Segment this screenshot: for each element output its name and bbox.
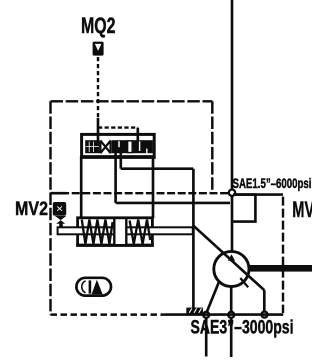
pilot line solid left stub [51, 192, 67, 195]
wire valve port A vertical [114, 152, 117, 203]
valve U2 spring left smear [85, 140, 99, 153]
wire MQ2 stem solid into valve [97, 118, 100, 135]
spool push rod (thin rectangle) [58, 227, 193, 234]
pilot line MV2 dashed (y=193) [51, 192, 230, 194]
svg-text:MV2: MV2 [15, 198, 48, 220]
pilot branch elbow down into valve [136, 128, 139, 135]
valve U2 position square crossed arrows [100, 140, 110, 153]
node SAE1.5 port circle [229, 190, 235, 196]
solenoid MV2 stem [59, 223, 63, 227]
label oval inner arc [82, 281, 86, 293]
wire valve A-port line horizontal (y=203) [116, 202, 230, 205]
wire feedback link vertical (x=193.5) [192, 169, 195, 308]
valve U3 spring left [82, 220, 113, 244]
wire P line top (x=232 from top to SAE1.5 port) [231, 0, 234, 189]
solenoid MV2 seat hourglass [55, 216, 67, 220]
test point MQ2 symbol [93, 42, 104, 56]
swashplate arrow diagonal through pump [194, 226, 265, 290]
node manifold port left [203, 312, 209, 318]
wire valve left edge link down [80, 156, 83, 218]
valve U2 interior right smear [133, 140, 153, 153]
valve U2 interior middle smear [112, 140, 127, 153]
wire MQ2 stem dashed [97, 57, 99, 118]
wire P line to pump (x=232 from port to pump top) [231, 196, 234, 252]
filter white hatch [189, 308, 201, 312]
valve U2 port stubs into interior [98, 135, 138, 142]
valve U3 body (lower compensator valve box) [78, 218, 153, 246]
wire stub below middle port [230, 318, 233, 357]
filter/orifice block at drain [186, 308, 203, 314]
svg-text:MV1: MV1 [292, 197, 312, 222]
node manifold port right [262, 312, 268, 318]
wire manifold line dashed left part [51, 313, 169, 315]
wire stub below left port [205, 318, 208, 357]
valve U3 thick bottom edge [76, 244, 154, 247]
valve U2 body (upper control valve box) [82, 134, 155, 157]
test point MQ2 white notch [95, 44, 101, 51]
svg-text:SAE3”–3000psi: SAE3”–3000psi [191, 317, 294, 339]
pump inlet triangle [228, 254, 235, 260]
wire manifold line solid part [166, 313, 283, 316]
enclosure dashed box left edge [49, 101, 51, 314]
swashplate arrow tail slash [240, 278, 248, 287]
solenoid MV2 white cross detail [57, 206, 62, 210]
component loop rectangle at pump port [232, 195, 255, 222]
svg-text:MQ2: MQ2 [81, 13, 116, 38]
pilot branch dashed horizontal (y=127.6) [98, 126, 138, 128]
label oval 1A stadium [76, 278, 111, 296]
label oval digit 1 [89, 280, 92, 293]
wire from SAE port to right line [235, 193, 283, 196]
valve U3 spring right [130, 220, 151, 244]
valve U2 bottom edge thick [81, 155, 155, 158]
wire valve right edge link down [152, 156, 155, 218]
pump drive shaft (thick bar) [249, 265, 312, 272]
wire case drain diagonal from pump [207, 282, 219, 312]
wire valve port B vertical [119, 152, 122, 169]
node manifold port middle [228, 312, 234, 318]
wire dashed return line right (x=283) [282, 197, 284, 313]
wire valve B-port horizontal (y=168) [121, 167, 194, 170]
pump U1 (variable displacement pump circle) [214, 251, 249, 286]
label oval letter A triangle [92, 280, 103, 295]
svg-text:SAE1.5”–6000psi: SAE1.5”–6000psi [233, 176, 312, 191]
valve U2 interior white slot [128, 141, 133, 153]
wire pump outlet down (x=231 pump bottom to manifold) [230, 287, 233, 312]
solenoid MV2 box [53, 202, 66, 216]
wire diagonal end down to right port [263, 290, 266, 311]
enclosure dashed box top edge [51, 100, 213, 102]
valve U3 center block [114, 218, 126, 245]
enclosure dashed box right edge [211, 101, 213, 193]
